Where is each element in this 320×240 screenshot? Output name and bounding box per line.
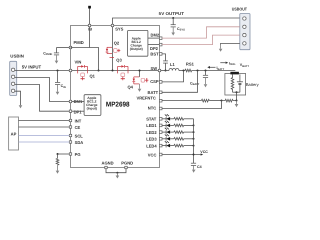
connector J1 pin circles (11, 68, 14, 71)
wire AP to SDA (19, 141, 70, 143)
junction LED4 row / VCC bus (193, 145, 195, 147)
junction VCC row / bus (193, 154, 195, 156)
wire DP2 net to USBOUT (162, 35, 240, 45)
pin DM2 (159, 37, 162, 40)
wire LED1 resistor to VCC bus (184, 124, 194, 126)
ground below Q4 (139, 84, 141, 89)
junction LED1 row / VCC bus (193, 124, 195, 126)
svg-text:IB: IB (88, 28, 92, 32)
svg-text:VREFNTC: VREFNTC (137, 96, 156, 101)
junction PG pulldown (57, 153, 59, 155)
ground below USBIN (19, 105, 23, 108)
pin LED3 (159, 138, 162, 141)
wire output box to DP2 (148, 44, 160, 46)
junction PMID net / VIN rail (98, 70, 100, 72)
svg-text:Q2: Q2 (114, 41, 120, 46)
pin CSP (159, 81, 162, 84)
wire AGND PGND join (106, 169, 126, 173)
LED indicator on LED2 (165, 130, 167, 134)
wire LED3 resistor to VCC bus (184, 138, 194, 140)
pin VIN (69, 69, 71, 71)
wire Q4 drain to rail (139, 71, 141, 77)
svg-text:Battery: Battery (246, 82, 260, 87)
wire DM1 to input box (72, 101, 84, 103)
wire SYS internal riser to VIN rail (112, 27, 114, 71)
wire USBIN gnd stub (15, 91, 21, 105)
svg-text:DP2: DP2 (150, 46, 159, 51)
connector J1 USBIN body (10, 61, 17, 95)
resistor on LED2 row (174, 131, 184, 134)
svg-text:5V OUTPUT: 5V OUTPUT (159, 11, 185, 16)
svg-text:PG: PG (75, 152, 81, 157)
wire LED to resistor on LED1 (170, 124, 174, 126)
LED indicator on STAT (165, 117, 167, 121)
pin STAT (159, 118, 162, 121)
LED row LED2 (162, 128, 195, 134)
resistor on LED4 row (174, 144, 184, 147)
wire AP to INT (19, 120, 70, 122)
LED row LED3 (162, 134, 195, 140)
wire VREFNTC row (162, 100, 201, 102)
wire USBOUT gnd (221, 43, 240, 44)
resistor R1 on VREFNTC (201, 99, 209, 102)
wire AP to SCL (19, 135, 70, 137)
resistor R PG (56, 158, 59, 165)
svg-text:LED3: LED3 (146, 137, 157, 142)
wire SW to L1 (161, 70, 169, 72)
pin LED4 (159, 144, 162, 147)
svg-text:NTC: NTC (148, 106, 156, 111)
junction AGND/PGND (116, 172, 118, 174)
wire output box to DM2 (148, 37, 160, 39)
wire 5V input rail from USBIN pin1 to VIN pin (15, 70, 71, 72)
LED indicator on LED4 (165, 144, 167, 148)
resistor on LED1 row (174, 124, 184, 127)
pin DM1 (69, 100, 71, 102)
wire LED to resistor on LED4 (170, 145, 174, 147)
pin SCL (69, 134, 71, 136)
pin CE (69, 126, 71, 128)
pin PGND bottom (125, 166, 127, 168)
box Apple BC1.2 Charge (Input) (84, 95, 101, 116)
pin VREFNTC (159, 99, 162, 102)
svg-text:INT: INT (75, 118, 82, 123)
pin IB top (88, 24, 90, 26)
svg-text:(Input): (Input) (87, 106, 97, 110)
svg-text:LED2: LED2 (146, 130, 157, 135)
wire LED3 pin to LED (162, 138, 166, 140)
battery pack box (225, 74, 246, 96)
svg-text:L1: L1 (170, 62, 176, 67)
resistor RS1 (185, 69, 192, 72)
transistor Q4 (132, 77, 148, 84)
svg-text:C4: C4 (197, 165, 202, 169)
wire STAT resistor to VCC bus (184, 118, 194, 120)
battery bottom join (233, 91, 240, 93)
wire PMID net inside IC (71, 48, 99, 71)
ground below NTC divider (236, 101, 238, 105)
resistor R2 on VREFNTC (222, 99, 237, 102)
pin PMID (69, 46, 71, 48)
pin PG (69, 153, 71, 155)
junction Q4 / SW rail (139, 70, 141, 72)
connector J2 USBOUT body (240, 14, 250, 50)
pin INT (69, 119, 71, 121)
svg-text:AGND: AGND (102, 161, 114, 166)
wire LED2 resistor to VCC bus (184, 131, 194, 133)
svg-text:DP1: DP1 (74, 110, 83, 115)
wire USBIN D+ to DP1 (15, 85, 70, 112)
arrowhead VCC net (201, 153, 204, 155)
wire VCC row (162, 154, 201, 156)
svg-text:USBOUT: USBOUT (232, 7, 248, 12)
annotation IBATT arrow (210, 66, 216, 68)
svg-text:PMID: PMID (74, 40, 84, 45)
capacitor CPMID (56, 48, 58, 53)
svg-text:VIN: VIN (75, 60, 82, 65)
pin NTC (159, 107, 162, 110)
wire PG pulldown (58, 153, 70, 155)
junction NTC / divider (221, 100, 223, 102)
pin DP2 (159, 43, 162, 46)
resistor on STAT row (174, 118, 184, 121)
wire AP to CE (19, 126, 70, 128)
wire VIN rail inside IC (72, 70, 160, 72)
box AP (9, 117, 19, 150)
pin AGND bottom (105, 166, 107, 168)
wire BATT sense (162, 71, 198, 93)
wire DP1 to input box (72, 110, 84, 112)
pin DP1 (69, 110, 71, 112)
capacitor CBST (162, 54, 166, 61)
junction SYS riser / VIN rail (112, 70, 114, 72)
wire battery to NTC divider (236, 92, 238, 100)
svg-text:Q1: Q1 (90, 74, 96, 79)
svg-text:PGND: PGND (121, 161, 133, 166)
svg-text:BATT: BATT (148, 90, 159, 95)
svg-text:BST: BST (150, 52, 159, 57)
svg-text:STAT: STAT (146, 117, 157, 122)
ground below AGND/PGND (116, 173, 118, 176)
svg-text:SW: SW (151, 66, 158, 71)
svg-text:DM2: DM2 (151, 32, 160, 37)
wire LED to resistor on STAT (170, 118, 174, 120)
svg-text:LED1: LED1 (146, 123, 157, 128)
wire LED to resistor on LED2 (170, 131, 174, 133)
wire IB internal to PMID net (89, 27, 91, 48)
capacitor CBATT (205, 71, 207, 76)
junction CBST / SW node (165, 70, 167, 72)
LED indicator on LED3 (165, 137, 167, 141)
wire NTC row (162, 101, 222, 109)
svg-text:Q4: Q4 (128, 85, 134, 90)
LED row LED1 (162, 121, 195, 127)
svg-text:MP2698: MP2698 (106, 101, 130, 108)
pin BST (159, 53, 162, 56)
transistor Q3 (118, 65, 128, 80)
junction CBATT node (205, 70, 207, 72)
annotation ICHG arrow (220, 62, 225, 64)
junction battery internal bottom (236, 91, 238, 93)
svg-text:SDA: SDA (75, 140, 84, 145)
LED row STAT (162, 114, 194, 120)
svg-text:AP: AP (11, 131, 17, 136)
wire LED bus (193, 119, 195, 163)
pin VCC (159, 153, 162, 156)
thermistor NTC inside battery (231, 74, 234, 92)
svg-text:VCC: VCC (200, 150, 208, 154)
pin SYS top (111, 24, 113, 26)
resistor on LED3 row (174, 138, 184, 141)
svg-text:(Output): (Output) (130, 47, 143, 51)
svg-text:CE: CE (75, 125, 81, 130)
wire DM2 net to USBOUT (162, 27, 240, 38)
junction LED2 row / VCC bus (193, 131, 195, 133)
pin SW (158, 69, 160, 71)
junction LED3 row / VCC bus (193, 138, 195, 140)
junction BATT sense node (197, 70, 199, 72)
inductor L1 (169, 68, 179, 70)
box Apple BC1.2 Charge (Output) (128, 30, 148, 56)
junction CSP sense / L1-RS1 node (183, 70, 185, 72)
wire LED4 resistor to VCC bus (184, 145, 194, 147)
wire SYS riser to 5V OUTPUT rail (113, 18, 240, 24)
junction CSYS / 5V output rail (172, 17, 174, 19)
svg-text:RS1: RS1 (186, 61, 195, 66)
wire CSP sense (162, 71, 184, 82)
wire LED to resistor on LED3 (170, 138, 174, 140)
IC U1 MP2698 body (71, 26, 160, 168)
pin SDA (69, 141, 71, 143)
pin LED2 (159, 131, 162, 134)
svg-text:SYS: SYS (115, 26, 123, 31)
svg-text:USBIN: USBIN (10, 54, 24, 59)
wire LED2 pin to LED (162, 131, 166, 133)
svg-text:LED4: LED4 (146, 143, 157, 148)
transistor Q2 (106, 47, 121, 57)
svg-text:SCL: SCL (75, 134, 84, 139)
wire PMID pin to CPMID (57, 47, 71, 49)
LED indicator on LED1 (165, 124, 167, 128)
wire L1 to RS1 (179, 70, 185, 72)
testpoint above IB (88, 6, 91, 9)
wire USBIN D- to DM1 (15, 78, 70, 102)
capacitor C4 (191, 162, 196, 164)
junction battery negative / divider (236, 100, 238, 102)
battery cell symbol (239, 74, 241, 81)
wire LED1 pin to LED (162, 124, 166, 126)
wire LED4 pin to LED (162, 145, 166, 147)
pin LED1 (159, 124, 162, 127)
wire STAT pin to LED (162, 118, 166, 120)
pin BATT (159, 91, 162, 94)
battery plus terminal bar (230, 72, 239, 75)
transistor Q1 (78, 65, 88, 80)
wire RS1 to battery (192, 70, 236, 72)
LED row LED4 (162, 141, 195, 147)
junction CIN / 5V input rail (57, 70, 59, 72)
svg-text:CSP: CSP (150, 79, 159, 84)
svg-text:5V INPUT: 5V INPUT (22, 64, 42, 69)
svg-text:VCC: VCC (148, 152, 157, 157)
svg-text:Q3: Q3 (116, 57, 122, 62)
